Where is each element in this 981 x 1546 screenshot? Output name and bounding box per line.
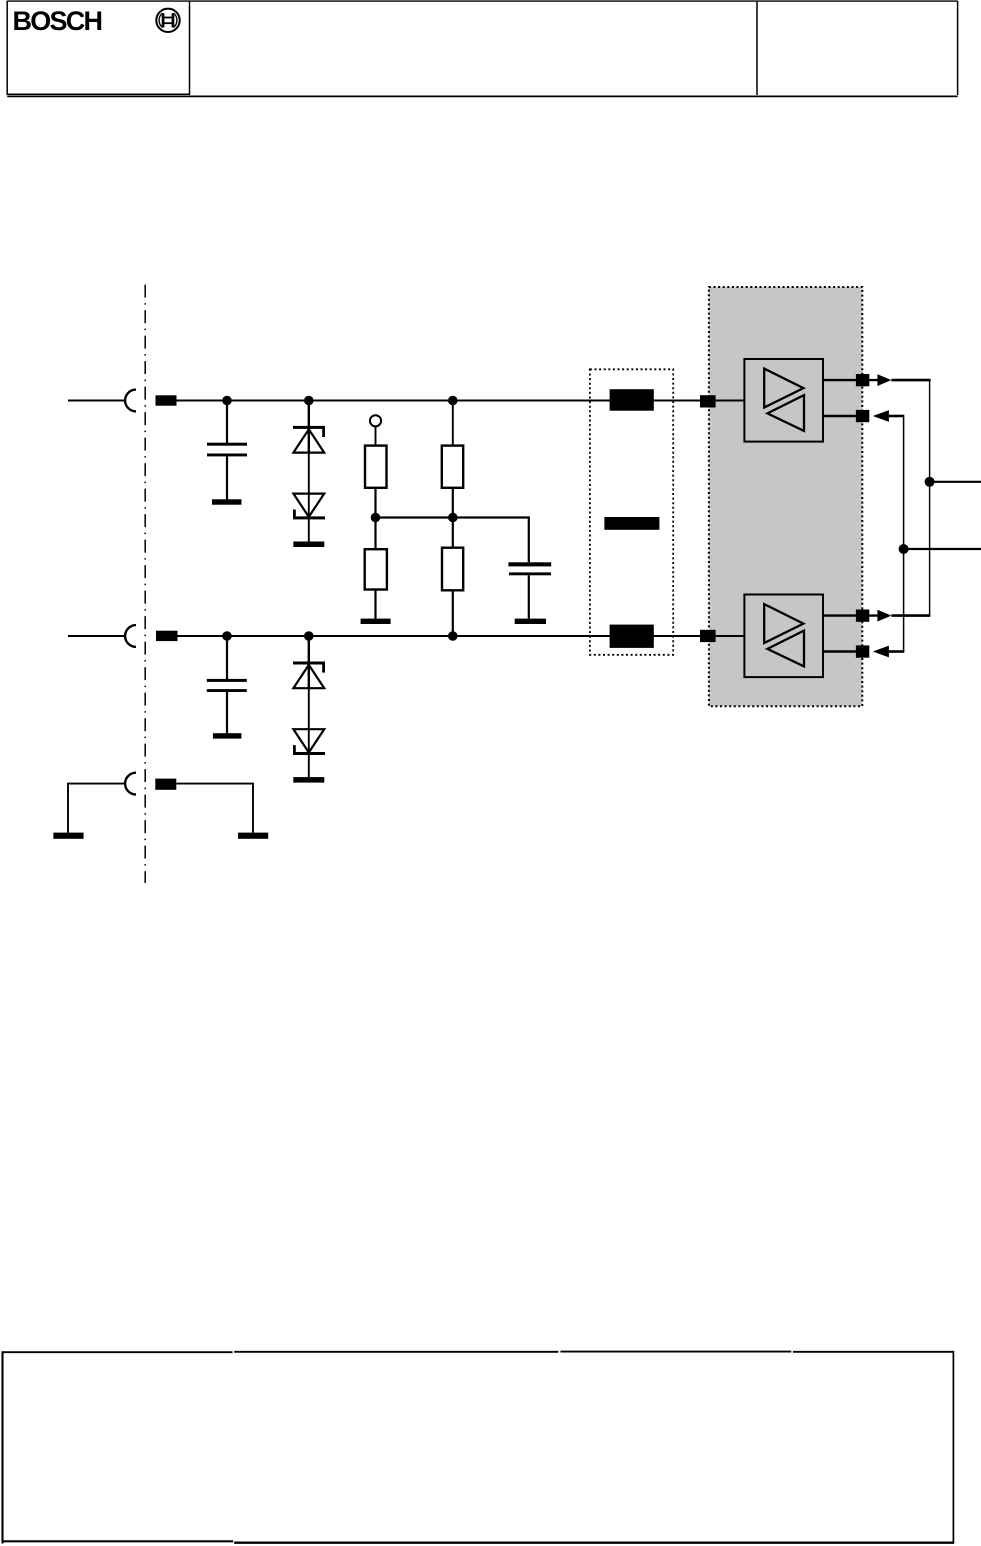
wire U1 in [823, 415, 856, 417]
wire RX to edge [930, 481, 981, 483]
common-mode choke L1 outline [590, 369, 673, 655]
ground D1 [293, 542, 324, 548]
ground C3 [213, 733, 242, 738]
wire CAN_L external stub [68, 635, 125, 637]
wire CAN_L [178, 635, 701, 637]
capacitor C1 [207, 401, 247, 500]
ECU boundary centerline [144, 285, 146, 883]
pin U1 in [856, 410, 869, 422]
wire TX vertical [903, 416, 905, 652]
ground shield internal [238, 833, 268, 839]
wire shield internal [176, 784, 253, 833]
suppressor diode D2a [293, 636, 325, 688]
transceiver module shaded box [709, 287, 862, 706]
resistor R3 [442, 518, 463, 637]
capacitor C3 [207, 636, 247, 733]
junction split node at R2 [448, 513, 458, 523]
choke winding CAN_L [610, 625, 654, 648]
ground R4 [361, 619, 391, 624]
wire U2 out [823, 614, 877, 616]
ground C1 [212, 499, 242, 504]
ground shield external [53, 833, 83, 839]
wire shield external [68, 784, 125, 833]
junction CAN_L at C3 [222, 631, 232, 641]
junction TX node [899, 544, 909, 554]
wire U2 in from TX node [889, 650, 904, 653]
ground C2 [515, 619, 546, 624]
pin U2 out [856, 610, 869, 622]
capacitor C2 [508, 562, 551, 618]
pin U2 bus [700, 630, 716, 642]
wire U1 bus [716, 400, 745, 402]
wire U1 out [823, 379, 877, 381]
transceiver U2 driver triangle [764, 604, 803, 643]
terminal Vsplit [370, 415, 381, 426]
arrow U2 out [877, 610, 891, 622]
connector socket CAN_H [125, 390, 136, 412]
arrow U1 in [873, 410, 889, 422]
wire U1 in from TX node [889, 415, 904, 418]
wire U2 bus [716, 635, 745, 637]
footer table frame [3, 1351, 954, 1544]
wire split node [376, 518, 529, 563]
wire RX vertical [929, 380, 931, 615]
wire CAN_H external stub [68, 400, 125, 402]
suppressor diode D1a [293, 401, 325, 453]
ground D2 [293, 777, 324, 783]
junction CAN_L at R3 [448, 631, 458, 641]
transceiver U1 box [744, 359, 823, 442]
arrow U2 in [873, 646, 889, 658]
connector pin CAN_L [156, 631, 178, 641]
junction RX node [925, 477, 935, 487]
wire U2 in [823, 650, 856, 652]
transceiver U2 receiver triangle [767, 631, 804, 667]
connector socket CAN_L [125, 625, 136, 647]
wire U2 out to bus node [891, 614, 930, 617]
Bosch emblem [156, 9, 179, 32]
choke winding CAN_H [610, 389, 654, 411]
suppressor diode D2b [293, 688, 325, 777]
connector pin shield [155, 779, 176, 790]
pin U1 bus [700, 395, 716, 407]
transceiver U1 driver triangle [764, 369, 803, 408]
arrow U1 out [877, 374, 891, 386]
suppressor diode D1b [293, 453, 325, 542]
pin U2 in [856, 645, 869, 657]
svg-text:BOSCH: BOSCH [13, 6, 102, 36]
choke core [604, 517, 659, 530]
transceiver U1 receiver triangle [767, 395, 804, 431]
resistor R1 [365, 426, 387, 517]
junction CAN_H at D1 [304, 396, 314, 406]
junction CAN_H at R2 [448, 396, 458, 406]
transceiver U2 box [744, 595, 823, 678]
junction CAN_L at D2 [304, 631, 314, 641]
resistor R2 [442, 401, 463, 518]
resistor R4 [365, 518, 387, 619]
pin U1 out [856, 374, 869, 386]
connector pin CAN_H [156, 395, 177, 405]
junction split node at R1 [371, 513, 381, 523]
wire TX to edge [904, 548, 981, 550]
wire U1 out to bus node [891, 379, 930, 382]
connector socket shield [125, 773, 136, 795]
header table frame [7, 1, 957, 97]
wire CAN_H [177, 400, 701, 402]
junction CAN_H at C1 [222, 396, 232, 406]
